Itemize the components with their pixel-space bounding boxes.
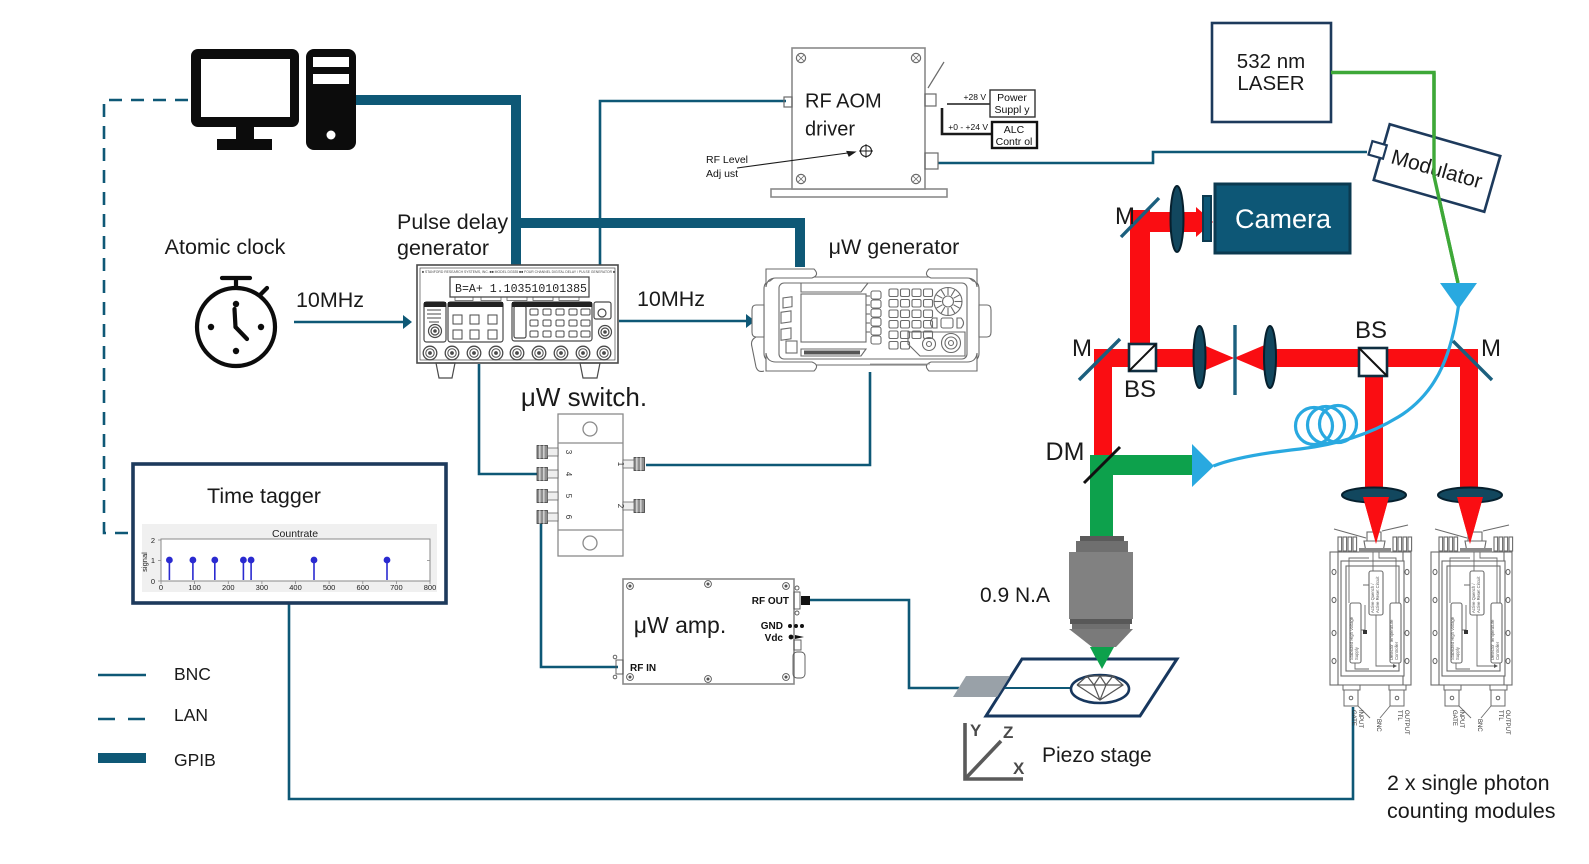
svg-text:μW switch.: μW switch. [521,382,647,412]
svg-text:800: 800 [424,583,437,592]
svg-text:Adj ust: Adj ust [706,168,738,180]
svg-text:Piezo stage: Piezo stage [1042,744,1152,767]
svg-text:Controller: Controller [1394,641,1399,660]
svg-text:Camera: Camera [1235,204,1332,234]
svg-text:6: 6 [564,515,573,520]
svg-text:5: 5 [564,494,573,499]
svg-text:3: 3 [564,450,573,455]
svg-text:100: 100 [188,583,201,592]
svg-text:OUTPUT: OUTPUT [1403,710,1409,735]
svg-text:Countrate: Countrate [272,528,318,540]
svg-text:TTL: TTL [1396,710,1402,721]
svg-text:B=A+ 1.103510101385: B=A+ 1.103510101385 [455,282,587,296]
svg-text:Atomic clock: Atomic clock [165,235,286,259]
svg-text:200: 200 [222,583,235,592]
svg-text:500: 500 [323,583,336,592]
svg-text:DM: DM [1046,438,1085,466]
svg-text:4: 4 [564,472,573,477]
svg-text:LASER: LASER [1237,72,1304,95]
svg-text:Active Reset Circuit: Active Reset Circuit [1375,576,1380,613]
svg-text:600: 600 [357,583,370,592]
svg-text:GPIB: GPIB [174,750,216,770]
svg-text:1: 1 [616,462,625,467]
svg-text:Vdc: Vdc [765,633,784,644]
svg-text:+0 - +24 V: +0 - +24 V [948,122,988,132]
svg-text:μW amp.: μW amp. [634,612,726,638]
svg-text:RF IN: RF IN [630,663,656,674]
svg-text:Y: Y [970,721,982,740]
svg-text:0.9 N.A: 0.9 N.A [980,584,1050,607]
svg-text:Supply: Supply [1354,646,1359,660]
svg-text:M: M [1115,203,1135,230]
svg-text:Contr ol: Contr ol [996,136,1033,148]
svg-text:1: 1 [151,556,155,565]
svg-text:300: 300 [256,583,269,592]
svg-text:RF AOM: RF AOM [805,91,882,113]
svg-text:10MHz: 10MHz [296,288,364,312]
svg-text:0: 0 [151,577,155,586]
svg-text:RF OUT: RF OUT [752,596,789,607]
svg-text:2 x single photon: 2 x single photon [1387,771,1550,795]
svg-text:generator: generator [397,236,489,260]
svg-text:Pulse delay: Pulse delay [397,210,508,234]
svg-text:■ STANFORD RESEARCH SYSTEMS, I: ■ STANFORD RESEARCH SYSTEMS, INC. ■■ MOD… [422,269,615,274]
svg-text:2: 2 [151,536,155,545]
svg-text:0: 0 [159,583,163,592]
svg-text:532 nm: 532 nm [1237,50,1305,73]
svg-text:BNC: BNC [174,664,211,684]
svg-text:700: 700 [390,583,403,592]
svg-text:counting modules: counting modules [1387,799,1556,823]
svg-text:400: 400 [289,583,302,592]
svg-text:GATE: GATE [1350,710,1356,726]
svg-text:BS: BS [1355,317,1387,344]
svg-text:ALC: ALC [1004,124,1025,136]
svg-text:INPUT: INPUT [1357,710,1363,728]
svg-text:RF Level: RF Level [706,154,748,166]
svg-text:signal: signal [140,552,149,572]
svg-text:Power: Power [997,92,1027,104]
svg-text:μW generator: μW generator [829,235,960,259]
svg-text:Z: Z [1003,723,1013,742]
svg-text:+28 V: +28 V [964,92,987,102]
svg-text:LAN: LAN [174,705,208,725]
svg-text:Suppl y: Suppl y [994,104,1030,116]
svg-text:M: M [1072,335,1092,362]
svg-text:driver: driver [805,119,855,141]
svg-text:Time tagger: Time tagger [207,484,321,508]
svg-text:BNC: BNC [1375,719,1381,732]
svg-text:X: X [1013,759,1025,778]
svg-text:10MHz: 10MHz [637,287,705,311]
svg-text:M: M [1481,335,1501,362]
svg-text:2: 2 [616,504,625,509]
svg-text:GND: GND [761,621,783,632]
svg-text:BS: BS [1124,376,1156,403]
